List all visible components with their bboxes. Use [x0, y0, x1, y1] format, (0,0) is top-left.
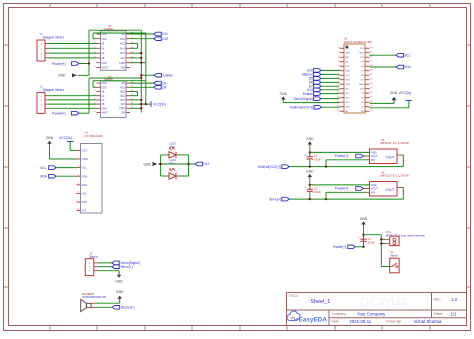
svg-text:MS3: MS3 — [120, 48, 125, 50]
svg-text:SLP: SLP — [121, 58, 126, 60]
wire GND rail (U6) — [309, 180, 311, 185]
svg-text:REV:: REV: — [434, 298, 442, 302]
net flag Servo(Signal) — [112, 261, 120, 265]
svg-text:VDD: VDD — [102, 39, 107, 41]
svg-text:GND: GND — [360, 217, 368, 221]
svg-text:STEP: STEP — [119, 108, 125, 110]
wire CN1 stubs — [381, 238, 385, 240]
wire SDA to U3 pin4 — [56, 175, 76, 177]
svg-text:DCWU4: DCWU4 — [360, 294, 408, 309]
svg-text:1A: 1A — [102, 47, 105, 50]
svg-text:21: 21 — [370, 87, 372, 89]
svg-text:29: 29 — [370, 51, 372, 53]
svg-text:AMS1117-5.0_C261787: AMS1117-5.0_C261787 — [380, 141, 410, 145]
wire VCC to U3 pin1 — [69, 141, 71, 150]
net flag Power[+] (buzzer) — [112, 306, 120, 310]
wire flag to U1 — [321, 98, 339, 100]
svg-text:28: 28 — [370, 56, 372, 58]
svg-text:CLK: CLK — [345, 75, 350, 77]
svg-text:GND: GND — [116, 290, 124, 294]
svg-text:GND: GND — [102, 63, 107, 65]
svg-text:SCL: SCL — [40, 166, 46, 170]
svg-text:GND: GND — [102, 83, 107, 85]
svg-text:DIR: DIR — [121, 68, 125, 70]
svg-text:PKM22EPPH2001-B0: PKM22EPPH2001-B0 — [83, 296, 107, 299]
svg-text:19: 19 — [370, 96, 372, 98]
wire LED loop to D12 — [189, 163, 195, 165]
svg-text:ESP12-NODEMCU-30P: ESP12-NODEMCU-30P — [344, 40, 372, 44]
wire flag to U1 — [321, 77, 339, 79]
svg-text:D10: D10 — [162, 37, 168, 41]
svg-text:GND: GND — [102, 108, 107, 110]
capacitor C3 220uF — [360, 238, 366, 240]
wire left rail U4 — [88, 30, 90, 75]
svg-text:TITLE:: TITLE: — [289, 294, 299, 298]
wire GND to LED loop — [158, 163, 161, 165]
svg-text:VCC[3v]: VCC[3v] — [59, 136, 72, 140]
wire SCL to U3 pin3 — [56, 167, 76, 169]
svg-text:SDA: SDA — [404, 65, 411, 69]
svg-text:1: 1 — [338, 47, 339, 49]
svg-text:D11: D11 — [162, 32, 168, 36]
svg-text:2B: 2B — [102, 104, 105, 106]
svg-text:SCL: SCL — [404, 53, 410, 57]
wire servo gnd — [97, 270, 119, 272]
wire HotEnd to U1 — [322, 106, 340, 108]
wire flag to U1 — [321, 85, 339, 87]
wire servo signal — [97, 262, 111, 264]
svg-text:5mm: 5mm — [170, 161, 176, 165]
svg-text:30: 30 — [370, 47, 372, 49]
svg-text:VDD: VDD — [102, 87, 107, 89]
wire U2 pin1 to flag D9 — [130, 82, 154, 84]
svg-text:GND: GND — [371, 183, 377, 187]
svg-text:HotEnd(VCC[+]): HotEnd(VCC[+]) — [290, 105, 313, 109]
wire U2 pin7 to bus — [130, 107, 141, 109]
svg-text:Enable: Enable — [163, 73, 173, 77]
wire Power[+] to cap — [355, 246, 363, 248]
wire Power[+] to U5 — [363, 155, 365, 157]
wire buzzer gnd — [95, 302, 120, 304]
wire U4 pin2 to flag D10 — [130, 38, 154, 40]
svg-text:EN: EN — [122, 34, 126, 36]
wire U1 to SDA — [370, 66, 397, 68]
wire U2 pin3-pin4 loop — [130, 91, 138, 93]
wire flag to U1 — [321, 89, 339, 91]
junction (141.3,53.1) — [140, 52, 142, 54]
svg-text:24: 24 — [370, 74, 372, 76]
svg-text:1B: 1B — [102, 92, 105, 94]
wire J1 to U4 — [49, 43, 97, 45]
svg-text:+: + — [357, 236, 359, 240]
svg-text:220uF: 220uF — [368, 241, 376, 244]
wire U4 pin7 to bus B — [130, 62, 146, 64]
wire flag to U1 — [321, 73, 339, 75]
svg-text:Power[+]: Power[+] — [335, 187, 349, 191]
svg-text:GND: GND — [306, 137, 314, 141]
wire GND to U1 — [282, 101, 284, 104]
net flag D11 — [154, 32, 162, 36]
svg-text:MS2: MS2 — [120, 44, 125, 46]
wire U1 to GND rail — [370, 102, 395, 104]
svg-text:VOUT: VOUT — [371, 154, 379, 158]
svg-text:GND: GND — [46, 136, 54, 140]
svg-text:4: 4 — [338, 60, 339, 62]
svg-text:22: 22 — [370, 83, 372, 85]
svg-text:12: 12 — [337, 96, 339, 98]
wire U2 pin2 to flag D8 — [130, 86, 154, 88]
svg-text:15: 15 — [337, 110, 339, 112]
junction (89,63.5) — [88, 62, 90, 64]
svg-text:1.0: 1.0 — [451, 297, 458, 302]
svg-text:Sheet:: Sheet: — [434, 312, 444, 316]
svg-text:GND: GND — [82, 157, 88, 161]
svg-text:VOUT: VOUT — [386, 188, 395, 192]
net flag D12 — [195, 162, 203, 166]
wire GND to U3 pin2 — [49, 146, 51, 159]
junction (141.3,78) — [140, 77, 142, 79]
svg-text:+: + — [304, 186, 306, 190]
svg-text:+: + — [304, 153, 306, 157]
svg-text:EN: EN — [122, 83, 126, 85]
wire J2 to U2 — [49, 95, 97, 97]
EasyEDA logo — [287, 311, 300, 320]
wire U2 pin6 to VCC flag — [130, 103, 151, 105]
net flag Enable — [141, 74, 154, 76]
svg-text:S1: S1 — [390, 250, 394, 254]
svg-text:Power[+]: Power[+] — [333, 245, 347, 249]
wire bus A vertical — [140, 30, 142, 112]
svg-text:VIN: VIN — [371, 158, 375, 162]
wire flag to U1 — [321, 93, 339, 95]
svg-text:5: 5 — [338, 65, 339, 67]
svg-text:VCC: VCC — [82, 149, 88, 153]
wire Power[+] to U6 — [363, 188, 365, 190]
svg-text:GND: GND — [345, 71, 350, 73]
wire LED loop right — [188, 155, 190, 176]
wire LED loop bottom — [161, 175, 169, 177]
svg-text:VOUT: VOUT — [371, 187, 379, 191]
wire upper rail B (U2) — [93, 86, 97, 88]
svg-text:GND: GND — [359, 53, 364, 55]
svg-text:Servo: Servo — [89, 255, 98, 259]
svg-text:2A: 2A — [102, 99, 105, 102]
wire GND to rail — [78, 74, 90, 76]
svg-text:VIN: VIN — [371, 190, 375, 194]
svg-text:GND: GND — [359, 84, 364, 86]
wire VOUT tab (U5) — [401, 154, 403, 156]
wire flag to U1 — [321, 69, 339, 71]
svg-text:Date:: Date: — [332, 320, 340, 324]
svg-text:10: 10 — [337, 87, 339, 89]
svg-text:GND: GND — [390, 91, 398, 95]
svg-text:D8: D8 — [162, 86, 166, 90]
svg-text:VCC[3v]: VCC[3v] — [153, 102, 166, 106]
svg-text:EN: EN — [345, 62, 348, 64]
svg-text:RST: RST — [120, 100, 125, 102]
wire bottom rail (U5) — [289, 166, 403, 168]
svg-text:MS3: MS3 — [120, 96, 125, 98]
svg-text:Power[+]: Power[+] — [335, 154, 349, 158]
wire bottom rail (U6) — [289, 198, 403, 200]
svg-text:RSV: RSV — [345, 102, 350, 104]
svg-text:GND: GND — [102, 34, 107, 36]
wire power vertical — [363, 227, 365, 247]
wire U4 pin5 to bus — [130, 52, 141, 54]
svg-text:Drawn By:: Drawn By: — [387, 320, 402, 324]
svg-text:VOUT: VOUT — [386, 155, 395, 159]
net flag Servo[+] — [112, 265, 120, 269]
svg-text:STEP: STEP — [119, 63, 125, 65]
svg-text:1A: 1A — [102, 95, 105, 98]
net flag SDA (U1) — [396, 65, 404, 69]
wire Power[+] to U4 rail — [79, 63, 89, 65]
wire to CN1 — [364, 234, 382, 236]
svg-text:Company:: Company: — [332, 312, 347, 316]
svg-text:16: 16 — [370, 110, 372, 112]
net flag D8 — [154, 86, 162, 90]
svg-text:20: 20 — [370, 92, 372, 94]
wire LED loop top — [161, 154, 169, 156]
svg-text:Stepper Motor: Stepper Motor — [43, 88, 65, 92]
svg-text:Stepper Motor: Stepper Motor — [43, 36, 65, 40]
wire U1 to SCL — [370, 54, 397, 56]
svg-text:RST: RST — [120, 53, 125, 55]
svg-text:27: 27 — [370, 60, 372, 62]
svg-text:220uF: 220uF — [314, 191, 322, 194]
svg-text:HotEnd(VCC[+]): HotEnd(VCC[+]) — [258, 165, 281, 169]
svg-text:2B: 2B — [102, 58, 105, 60]
svg-text:23: 23 — [370, 78, 372, 80]
ground flag GND (servo) — [117, 275, 122, 278]
capacitor C1 100uF — [309, 152, 311, 156]
wire flag to U1 — [321, 81, 339, 83]
net flag D9 — [154, 81, 162, 85]
junction (141.3,62.7) — [140, 62, 142, 64]
wire bus B vertical — [145, 33, 147, 104]
svg-text:MS1: MS1 — [120, 39, 125, 41]
net flag SCL (U1) — [396, 53, 404, 57]
svg-text:MS1: MS1 — [120, 87, 125, 89]
wire GND rail (U5) — [309, 147, 311, 152]
svg-text:D12: D12 — [204, 162, 210, 166]
svg-text:U1: U1 — [344, 36, 348, 40]
svg-text:Power[+]: Power[+] — [52, 62, 66, 66]
svg-text:Servo[+]: Servo[+] — [269, 197, 281, 201]
svg-text:Switch: Switch — [390, 254, 398, 258]
svg-text:GND: GND — [280, 92, 288, 96]
svg-text:Servo[+]: Servo[+] — [121, 265, 133, 269]
wire U4 pin1 to flag D11 — [130, 33, 154, 35]
svg-text:RST: RST — [345, 57, 350, 59]
svg-text:GND: GND — [144, 162, 152, 166]
wire U2 pin5 to bus — [130, 99, 141, 101]
svg-text:100uF: 100uF — [314, 158, 322, 161]
capacitor C2 220uF — [309, 185, 311, 189]
svg-text:SDA: SDA — [40, 174, 47, 178]
svg-text:SLP: SLP — [121, 104, 126, 106]
wire Power[+] to U2 rail — [79, 112, 89, 114]
svg-text:2: 2 — [338, 51, 339, 53]
svg-text:2A: 2A — [102, 52, 105, 55]
svg-text:MS2: MS2 — [120, 92, 125, 94]
wire to switch — [381, 266, 389, 268]
net flag D10 — [154, 37, 162, 41]
svg-text:Servo(Signal): Servo(Signal) — [293, 97, 312, 101]
power flag VCC[3v] (drivers) — [150, 101, 152, 107]
svg-text:SDA: SDA — [82, 174, 88, 178]
svg-text:GND: GND — [371, 150, 377, 154]
svg-text:AD0: AD0 — [82, 200, 88, 204]
svg-text:GND: GND — [58, 74, 66, 78]
svg-text:Enable: Enable — [303, 92, 313, 96]
svg-text:VCC[3v]: VCC[3v] — [399, 91, 412, 95]
svg-text:1/1: 1/1 — [451, 311, 458, 316]
svg-text:GND: GND — [345, 107, 350, 109]
wire U4 pin6 to bus — [130, 57, 141, 59]
svg-text:2022-05-11: 2022-05-11 — [350, 319, 372, 324]
svg-text:INT: INT — [82, 209, 87, 213]
wire LED loop left — [160, 155, 162, 176]
svg-text:Your Company: Your Company — [357, 311, 386, 316]
wire servo plus — [97, 266, 111, 268]
wire VIN riser (U6) — [325, 192, 327, 199]
svg-text:18: 18 — [370, 101, 372, 103]
wire VOUT tab (U6) — [401, 187, 403, 189]
wire U1 to VCC rail — [370, 107, 409, 109]
svg-text:GY-6500-01#0: GY-6500-01#0 — [85, 134, 104, 138]
svg-text:Vishal Sharma: Vishal Sharma — [414, 319, 442, 324]
svg-text:GND: GND — [306, 170, 314, 174]
svg-text:1B: 1B — [102, 44, 105, 46]
svg-text:GND: GND — [115, 280, 123, 284]
wire buzzer plus — [95, 306, 112, 308]
wire LED loop mid — [161, 163, 189, 165]
svg-text:XDA: XDA — [82, 183, 88, 187]
svg-text:XCL: XCL — [82, 192, 88, 196]
svg-text:3: 3 — [338, 56, 339, 58]
junction (141.3,57.9) — [140, 57, 142, 59]
svg-text:Power[+]: Power[+] — [52, 112, 66, 116]
svg-text:25: 25 — [370, 69, 372, 71]
wire VIN riser (U5) — [325, 160, 327, 167]
wire U4 pin3-pin4 loop — [130, 43, 138, 45]
svg-text:EasyEDA: EasyEDA — [299, 316, 328, 323]
svg-text:DIR: DIR — [121, 113, 125, 115]
svg-text:XF250-2P 3.5mm screw terminal: XF250-2P 3.5mm screw terminal — [386, 233, 425, 237]
svg-text:17: 17 — [370, 105, 372, 107]
svg-text:Buzzer[+]: Buzzer[+] — [121, 306, 135, 310]
title block grid — [287, 292, 467, 294]
svg-text:VMOT: VMOT — [102, 68, 109, 70]
svg-text:VMOT: VMOT — [102, 113, 109, 115]
wire upper rail B (U4) — [93, 38, 97, 40]
svg-text:SCL: SCL — [82, 166, 88, 170]
svg-text:9: 9 — [338, 83, 339, 85]
svg-text:Sheet_1: Sheet_1 — [311, 299, 331, 305]
svg-text:AMS1117-5.0_C261787: AMS1117-5.0_C261787 — [380, 174, 410, 178]
svg-text:GND: GND — [345, 53, 350, 55]
svg-text:CMD: CMD — [345, 84, 350, 86]
